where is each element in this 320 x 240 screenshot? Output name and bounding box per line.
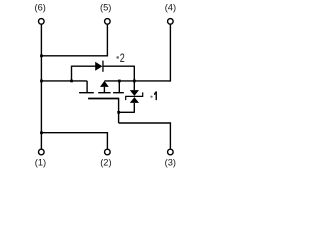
svg-text:(6): (6) xyxy=(35,3,46,13)
svg-text:(3): (3) xyxy=(165,157,176,167)
svg-text:2: 2 xyxy=(120,52,125,66)
svg-text:(5): (5) xyxy=(100,3,111,13)
svg-text:(1): (1) xyxy=(35,157,46,167)
svg-text:(2): (2) xyxy=(100,157,111,167)
svg-text:(4): (4) xyxy=(165,3,176,13)
